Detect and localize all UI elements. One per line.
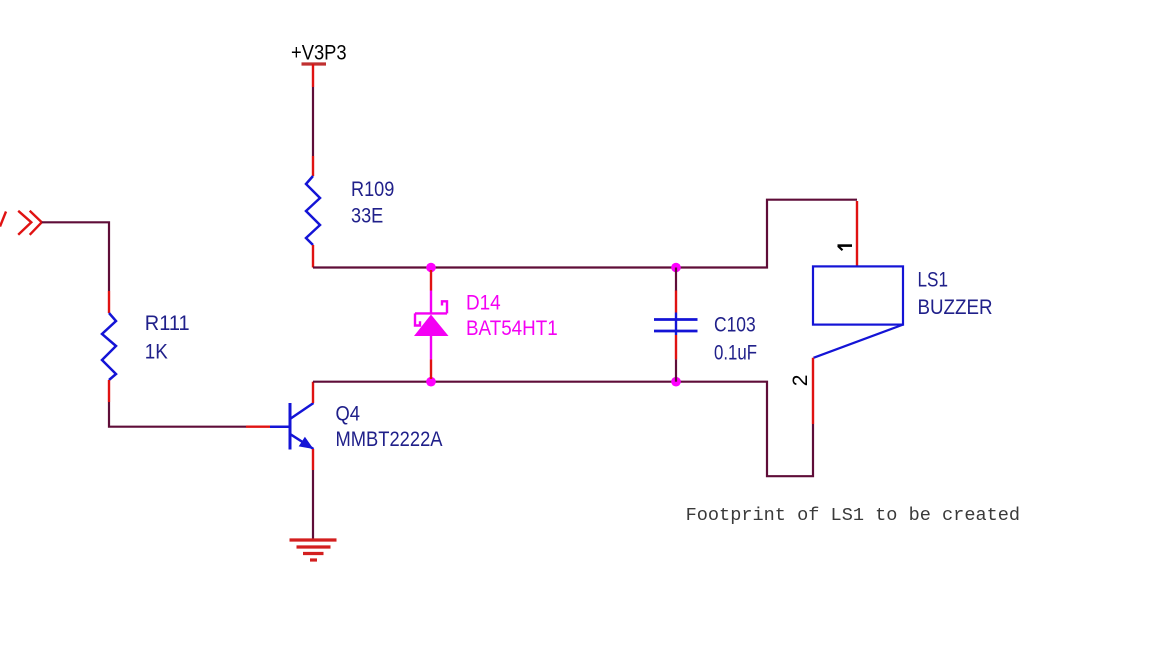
pin: LS1 pin 1 wire [856,201,858,266]
svg-text:BAT54HT1: BAT54HT1 [466,317,558,340]
wire: connector to R111 [42,222,109,291]
pin: R111 bottom [108,380,110,402]
wire: C103 to bottom rail [675,359,677,381]
capacitor C103 [654,313,698,336]
wire: top rail to C103 [675,268,677,292]
svg-text:+V3P3: +V3P3 [291,42,347,65]
resistor R109 [306,176,320,245]
svg-text:BUZZER: BUZZER [918,296,993,319]
pin number 1 [838,246,853,251]
svg-text:2: 2 [789,375,812,387]
junction: top rail / C103 [671,263,681,273]
pin: power symbol to wire [312,64,314,87]
svg-text:C103: C103 [714,314,756,337]
resistor R111 [102,313,116,380]
wire: +V3P3 to R109 [312,87,314,156]
svg-text:33E: 33E [351,205,383,228]
off-page connector (input) [0,211,42,235]
junction: bottom rail / D14 [426,377,436,387]
svg-text:Footprint of LS1 to be created: Footprint of LS1 to be created [686,505,1021,526]
pin: C103 top [675,291,677,313]
pin: LS1 pin 2 wire [812,358,814,424]
pin: R109 top [312,156,314,176]
svg-text:R111: R111 [145,312,190,335]
wire stub: top rail to D14 cathode [430,270,432,291]
buzzer LS1 [813,266,903,357]
svg-text:D14: D14 [466,291,501,314]
junction: top rail / D14 [426,263,436,273]
svg-text:R109: R109 [351,178,394,201]
diode D14 (schottky) [414,291,449,360]
pin: Q4 collector [312,382,314,403]
svg-text:Q4: Q4 [336,403,361,426]
wire stub: D14 anode to bottom rail [430,359,432,379]
junction: bottom rail / C103 [671,377,681,387]
svg-text:1K: 1K [145,341,168,364]
svg-text:0.1uF: 0.1uF [714,342,757,365]
pin: Q4 emitter [312,449,314,470]
pin: R109 bottom [312,245,314,268]
svg-text:LS1: LS1 [918,269,949,292]
wire: Q4 emitter to ground [312,470,314,540]
svg-text:MMBT2222A: MMBT2222A [336,428,443,451]
pin: Q4 base [246,426,270,428]
ground [290,540,337,560]
pin: C103 bottom [675,335,677,359]
wire: R111 to Q4 base [109,402,246,427]
pin: R111 top [108,291,110,313]
power symbol +V3P3 [302,62,327,65]
net: bottom rail [313,382,813,477]
net: top rail [313,200,857,268]
transistor Q4 [270,403,314,450]
